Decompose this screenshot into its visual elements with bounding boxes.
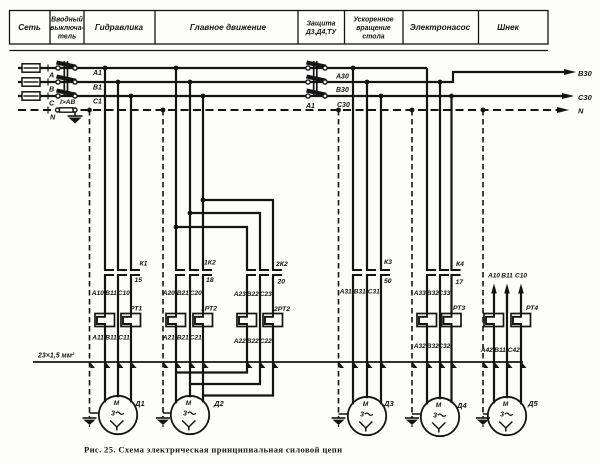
svg-text:Электронасос: Электронасос	[410, 23, 471, 32]
svg-text:В: В	[49, 85, 54, 94]
svg-text:С10: С10	[515, 273, 527, 280]
svg-text:В30: В30	[336, 87, 349, 94]
svg-text:А11: А11	[91, 335, 104, 342]
svg-text:А23: А23	[233, 291, 246, 298]
svg-text:Рис. 25. Схема электрическая п: Рис. 25. Схема электрическая принципиаль…	[84, 445, 342, 455]
svg-text:А31: А31	[339, 289, 352, 296]
svg-text:С30: С30	[578, 93, 593, 102]
svg-text:РТ1: РТ1	[130, 306, 142, 313]
svg-text:РТ4: РТ4	[526, 305, 538, 312]
svg-text:С: С	[49, 99, 55, 108]
svg-text:тель: тель	[58, 33, 76, 40]
svg-text:В31: В31	[354, 289, 366, 296]
svg-text:В21: В21	[177, 335, 189, 342]
svg-text:3: 3	[183, 409, 187, 418]
svg-text:Д3: Д3	[383, 399, 394, 408]
svg-text:А32: А32	[413, 343, 426, 350]
svg-text:М: М	[363, 401, 369, 408]
svg-text:А30: А30	[335, 74, 349, 81]
svg-text:В22: В22	[247, 291, 259, 298]
svg-text:А: А	[48, 71, 54, 80]
svg-text:В21: В21	[177, 290, 189, 297]
svg-text:А22: А22	[233, 338, 246, 345]
svg-text:3: 3	[500, 410, 504, 419]
svg-text:М: М	[114, 400, 120, 407]
svg-text:Защита: Защита	[307, 21, 336, 28]
svg-text:С42: С42	[508, 347, 520, 354]
svg-text:Д5: Д5	[527, 399, 538, 408]
svg-text:В1: В1	[93, 85, 102, 92]
svg-text:20: 20	[277, 279, 286, 286]
svg-text:С21: С21	[190, 335, 202, 342]
svg-text:В11: В11	[501, 273, 513, 280]
svg-text:К3: К3	[384, 259, 392, 266]
svg-text:1К2: 1К2	[204, 260, 216, 267]
svg-text:А1: А1	[92, 70, 102, 77]
svg-text:стола: стола	[362, 33, 384, 40]
svg-text:С20: С20	[190, 290, 202, 297]
svg-text:С22: С22	[260, 338, 272, 345]
svg-text:Гидравлика: Гидравлика	[95, 23, 144, 32]
svg-text:Д4: Д4	[456, 401, 467, 410]
svg-text:М: М	[503, 401, 509, 408]
svg-text:М: М	[436, 402, 442, 409]
svg-text:23×1,5 мм²: 23×1,5 мм²	[37, 353, 75, 360]
svg-text:3: 3	[360, 410, 364, 419]
svg-text:С31: С31	[368, 289, 380, 296]
svg-text:Вводный: Вводный	[51, 15, 83, 23]
svg-text:2РТ2: 2РТ2	[273, 306, 290, 313]
svg-text:В11: В11	[494, 347, 506, 354]
svg-text:Шнек: Шнек	[497, 23, 520, 32]
svg-text:I>АВ: I>АВ	[60, 99, 75, 106]
svg-text:Д1: Д1	[134, 399, 145, 408]
svg-text:Д2: Д2	[213, 399, 224, 408]
svg-text:К1: К1	[140, 261, 148, 268]
svg-text:50: 50	[384, 278, 392, 285]
svg-text:2К2: 2К2	[275, 261, 288, 268]
svg-text:N: N	[578, 106, 584, 115]
svg-text:С10: С10	[118, 290, 130, 297]
svg-text:В30: В30	[578, 69, 593, 78]
svg-text:Главное движение: Главное движение	[190, 23, 267, 32]
svg-text:В22: В22	[247, 338, 259, 345]
svg-text:выключа-: выключа-	[50, 25, 84, 32]
svg-text:Сеть: Сеть	[18, 23, 41, 32]
svg-text:РТ3: РТ3	[453, 305, 465, 312]
svg-text:В11: В11	[105, 290, 117, 297]
svg-text:17: 17	[456, 279, 465, 286]
svg-text:3: 3	[433, 411, 437, 420]
svg-text:вращение: вращение	[356, 25, 391, 32]
svg-text:1РТ2: 1РТ2	[201, 306, 217, 313]
svg-text:18: 18	[206, 277, 214, 284]
svg-text:С32: С32	[438, 343, 450, 350]
svg-text:А33: А33	[413, 290, 426, 297]
svg-text:Ускоренное: Ускоренное	[353, 16, 393, 23]
svg-text:А10: А10	[91, 290, 104, 297]
svg-text:М: М	[186, 400, 192, 407]
svg-text:15: 15	[135, 277, 143, 284]
svg-text:С11: С11	[118, 335, 130, 342]
svg-text:А1: А1	[305, 103, 315, 110]
svg-text:К4: К4	[456, 261, 464, 268]
svg-text:А42: А42	[480, 347, 493, 354]
svg-text:3: 3	[111, 409, 115, 418]
svg-text:Д3,Д4,ТУ: Д3,Д4,ТУ	[305, 29, 338, 36]
svg-text:А10: А10	[487, 273, 500, 280]
svg-text:С1: С1	[93, 99, 102, 106]
svg-text:N: N	[50, 113, 56, 122]
svg-text:С23: С23	[260, 291, 272, 298]
svg-text:В11: В11	[105, 335, 117, 342]
